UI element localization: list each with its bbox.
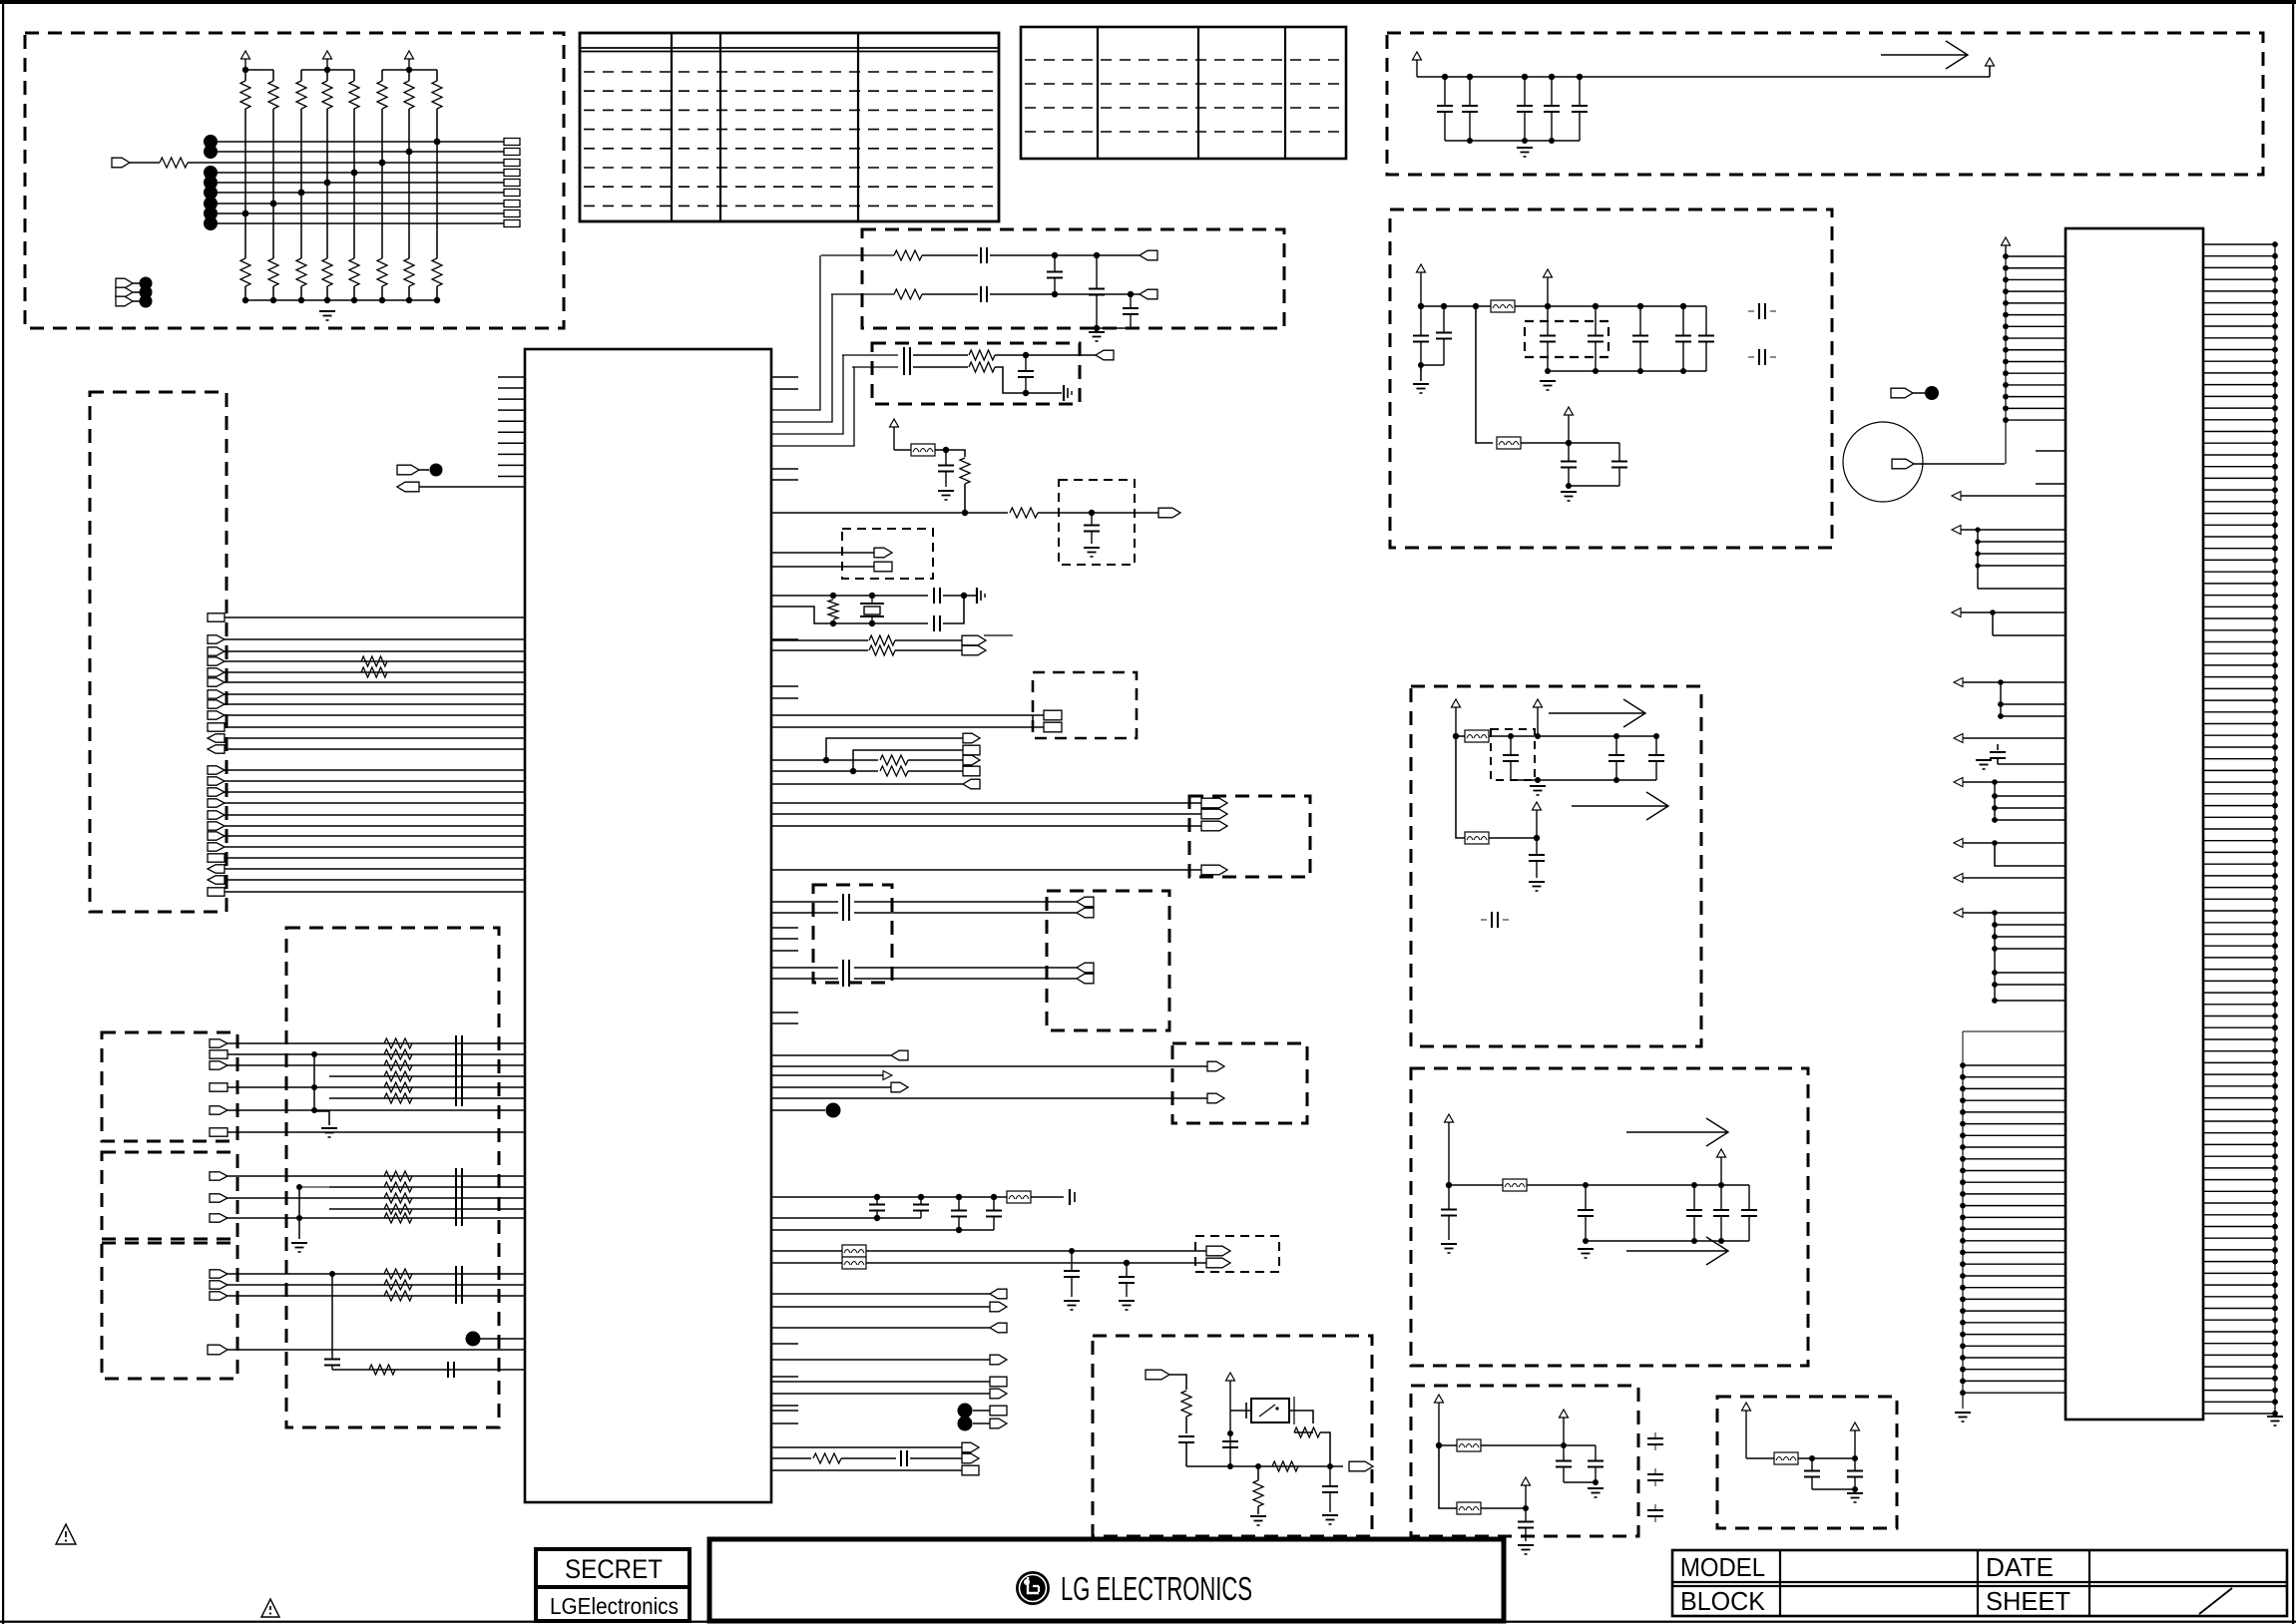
terminal <box>963 745 980 755</box>
rail junction <box>1467 138 1473 144</box>
junction <box>1418 362 1424 368</box>
load cap <box>934 588 940 604</box>
out terminal <box>1349 1461 1373 1471</box>
pull resistor R5 <box>349 81 359 109</box>
dc block cap <box>843 960 849 976</box>
bus wire <box>771 294 832 422</box>
stub <box>1654 1480 1656 1486</box>
io wire <box>228 1175 525 1177</box>
top link wire <box>1963 1030 2065 1032</box>
riser <box>331 1274 333 1355</box>
series resistor <box>384 1060 412 1070</box>
left rail wire <box>2005 256 2007 464</box>
vctrl terminal <box>1158 508 1180 518</box>
key row node <box>204 197 218 210</box>
junction <box>1227 1463 1233 1469</box>
rail to arrow wire <box>1989 66 1991 77</box>
rail junction <box>351 297 357 303</box>
wire to U1 <box>225 780 525 782</box>
resistor <box>1294 1427 1320 1437</box>
lower rail wire <box>1962 1065 1964 1409</box>
column wire lower <box>436 286 438 300</box>
key row node <box>204 145 218 159</box>
junction <box>1089 510 1095 516</box>
wire <box>964 595 977 597</box>
join wire <box>1812 1488 1855 1490</box>
junction <box>1566 440 1572 446</box>
stub <box>1654 1504 1656 1510</box>
cap <box>1540 306 1556 371</box>
decoupling capacitor <box>1572 77 1588 141</box>
terminal <box>1206 1246 1230 1256</box>
junction <box>869 620 875 626</box>
column wire lower <box>326 286 328 300</box>
key row terminal <box>504 201 520 207</box>
resistor <box>813 1453 841 1463</box>
key row terminal <box>504 160 520 167</box>
junction <box>1718 1238 1724 1244</box>
key row wire <box>188 162 504 164</box>
connector lower pin group <box>1960 1062 2066 1396</box>
cap <box>1561 443 1577 486</box>
cap <box>904 347 910 363</box>
terminal <box>1077 963 1094 973</box>
rail junction <box>324 297 330 303</box>
wire <box>894 449 911 451</box>
node <box>958 1404 973 1419</box>
RF supply block <box>1390 209 1832 548</box>
filter wire <box>332 1369 525 1371</box>
ground <box>1578 1249 1594 1258</box>
resistor <box>880 766 908 776</box>
node <box>826 1103 841 1118</box>
column wire upper <box>326 70 328 81</box>
wire <box>1185 1442 1187 1466</box>
vctrl wire <box>1038 512 1158 514</box>
join wire <box>1564 1481 1596 1483</box>
power arrow <box>1717 1149 1726 1185</box>
junction <box>1545 368 1551 374</box>
bottom rail <box>1511 779 1656 781</box>
bus wire <box>771 367 854 446</box>
key row terminal <box>504 210 520 217</box>
terminal <box>397 482 419 492</box>
power arrow <box>1565 407 1574 443</box>
cap <box>1441 1185 1457 1240</box>
ground <box>1250 1516 1266 1525</box>
rail junction <box>1680 303 1686 309</box>
ground <box>1084 548 1100 557</box>
lead <box>1257 1466 1259 1480</box>
bias resistor <box>828 600 838 619</box>
key row node <box>204 135 218 149</box>
rail junction <box>379 297 385 303</box>
tx wire <box>842 354 898 356</box>
pull resistor R16 <box>432 258 442 286</box>
key row node <box>204 176 218 190</box>
junction <box>830 593 836 599</box>
cap <box>1611 443 1627 486</box>
audio supply block <box>1411 686 1701 1046</box>
node <box>958 1417 973 1431</box>
sheet slash mark <box>2199 1588 2232 1614</box>
stub <box>1503 919 1509 921</box>
junction <box>1436 1442 1442 1448</box>
column wire lower <box>353 286 355 300</box>
mic wire <box>1914 463 2005 465</box>
junction <box>1852 1455 1858 1461</box>
series cap <box>456 1079 462 1095</box>
io wire <box>228 1109 525 1111</box>
tie junction <box>406 67 412 73</box>
series cap <box>456 1168 462 1184</box>
power arrow out <box>1986 58 1995 66</box>
junction <box>1691 1238 1697 1244</box>
rx wire <box>831 293 894 295</box>
junction <box>991 1194 997 1200</box>
stub <box>1654 1432 1656 1438</box>
pin wire <box>1961 495 2066 497</box>
cap <box>1578 1185 1594 1241</box>
page border frame right <box>2292 0 2294 1624</box>
io wire <box>771 1109 825 1111</box>
wire <box>908 759 963 761</box>
terminal <box>210 1061 228 1069</box>
resistor <box>1010 508 1038 518</box>
junction <box>1508 733 1514 739</box>
wire <box>1294 1431 1313 1433</box>
series resistor <box>384 1269 412 1279</box>
terminal <box>208 734 225 742</box>
led wire <box>771 1262 842 1264</box>
audio cap block <box>813 885 892 983</box>
ground <box>1588 1488 1604 1497</box>
logo title box frame <box>709 1539 1504 1621</box>
ground <box>1540 381 1556 390</box>
column wire <box>300 109 302 258</box>
series cap <box>456 1035 462 1051</box>
column wire <box>408 109 410 258</box>
junction <box>1653 733 1659 739</box>
terminal <box>1201 821 1227 831</box>
io wire <box>329 1208 525 1210</box>
ferrite <box>911 444 935 456</box>
load cap <box>934 615 940 631</box>
filter outline <box>1491 729 1535 780</box>
side ground <box>1064 385 1072 401</box>
output rail <box>1186 1465 1343 1467</box>
branch ferrite <box>1497 437 1521 449</box>
decoupling capacitor <box>1437 77 1453 141</box>
ground <box>1529 882 1545 891</box>
io wire <box>771 1359 990 1361</box>
connector pin wire <box>2036 483 2066 485</box>
rail junction <box>434 297 440 303</box>
memory io block <box>102 1032 237 1141</box>
sim io block <box>102 1152 237 1239</box>
series cap <box>456 1266 462 1282</box>
cap join <box>1569 485 1619 487</box>
io wire <box>228 1064 525 1066</box>
title table grid <box>1672 1550 2287 1616</box>
sd block <box>1172 1043 1307 1123</box>
terminal <box>208 745 225 753</box>
terminal <box>1201 809 1227 819</box>
terminal <box>208 647 225 655</box>
VBAT rail wire <box>1417 76 1990 78</box>
wire <box>771 1229 994 1231</box>
junction <box>918 1194 924 1200</box>
column wire upper <box>244 70 246 81</box>
key row wire <box>130 162 160 164</box>
audio wire <box>771 912 838 914</box>
node <box>466 1332 481 1347</box>
connector left pin group <box>2003 253 2066 423</box>
rx wire <box>922 254 978 256</box>
power VCC arrow x410 <box>405 51 414 70</box>
junction <box>1094 325 1100 331</box>
U1 left pin stubs <box>498 377 525 476</box>
junction <box>869 593 875 599</box>
wire <box>1031 1196 1064 1198</box>
ferrite <box>1457 1439 1481 1451</box>
series cap <box>456 1288 462 1304</box>
io wire <box>771 1065 1207 1067</box>
series cap <box>456 1190 462 1206</box>
U1 right pin stubs <box>771 377 798 1406</box>
power arrow <box>1560 1410 1569 1445</box>
power arrow <box>890 419 899 450</box>
wire <box>908 770 963 772</box>
GND bus wire <box>2274 244 2276 1414</box>
junction <box>1446 1182 1452 1188</box>
pull resistor R1 <box>240 81 250 109</box>
resistor <box>1181 1391 1191 1417</box>
if wire <box>771 714 1044 716</box>
filter outline <box>1059 480 1135 565</box>
cap <box>1047 255 1063 294</box>
LDO block <box>1411 1386 1638 1536</box>
junction <box>1535 777 1541 783</box>
wire <box>1481 1444 1596 1446</box>
key row node <box>204 186 218 200</box>
branch wire <box>1476 306 1493 443</box>
key row node <box>204 216 218 230</box>
bottom rail <box>245 299 437 301</box>
cap stub <box>1770 356 1776 358</box>
key row wire <box>211 151 504 153</box>
det terminal <box>1146 1370 1169 1380</box>
series resistor <box>384 1038 412 1048</box>
terminal <box>208 854 225 862</box>
key row wire <box>211 212 504 214</box>
test node <box>1925 386 1939 400</box>
wire <box>910 1457 962 1459</box>
series resistor <box>869 645 895 655</box>
dc block cap <box>843 905 849 921</box>
osc wire <box>943 596 964 623</box>
pin wire <box>1961 611 2066 613</box>
rail junction <box>1545 303 1551 309</box>
RX filter block <box>862 229 1284 328</box>
series resistor <box>384 1182 412 1192</box>
shield ground <box>291 1243 307 1252</box>
power arrow <box>1533 802 1542 838</box>
uart wire <box>771 802 1201 804</box>
series cap <box>456 1179 462 1195</box>
cap <box>1222 1441 1238 1447</box>
wire to U1 <box>225 616 525 618</box>
spare key terminal <box>116 278 133 288</box>
filter cap <box>1990 752 2006 758</box>
terminal <box>208 723 225 731</box>
matrix junction <box>298 190 305 197</box>
decoupling capacitor <box>1517 77 1533 141</box>
rx wire <box>990 254 1140 256</box>
in arrow <box>1952 609 1961 617</box>
if wire <box>771 726 1044 728</box>
top tie wire <box>301 69 354 71</box>
matrix junction <box>242 210 249 217</box>
cap <box>1588 1445 1604 1482</box>
junction <box>1680 368 1686 374</box>
in arrow <box>1952 526 1961 535</box>
pin wire <box>1963 877 2066 879</box>
series resistor <box>384 1049 412 1059</box>
led wire <box>771 1250 842 1252</box>
drop wire <box>1992 612 1994 635</box>
pin wire <box>1998 763 2066 765</box>
cap bottom rail <box>1445 140 1580 142</box>
wire to U1 <box>225 748 525 750</box>
cap <box>448 1362 454 1378</box>
led wire <box>866 1262 1206 1264</box>
osc wire <box>771 607 928 623</box>
cap <box>1178 1436 1194 1442</box>
cap <box>1698 306 1714 371</box>
junction <box>1852 1486 1858 1492</box>
top tie wire <box>245 69 273 71</box>
io wire <box>771 1054 891 1056</box>
terminal <box>210 1128 228 1136</box>
cap ground <box>1976 760 1992 769</box>
shield ground <box>321 1128 337 1137</box>
junction <box>1128 291 1134 297</box>
TP terminal <box>397 465 419 475</box>
ground <box>1530 786 1546 795</box>
io wire <box>228 1131 525 1133</box>
supply ferrite <box>1491 300 1515 312</box>
line filter block <box>286 928 499 1427</box>
terminal <box>990 1389 1007 1399</box>
junction <box>311 1051 317 1057</box>
warning triangle <box>261 1599 279 1617</box>
supply arrow <box>1572 792 1668 820</box>
bus ground <box>2267 1417 2283 1425</box>
side cap <box>1070 1189 1075 1205</box>
junction <box>1227 1430 1233 1436</box>
page border frame bottom <box>0 1621 2296 1623</box>
page border frame top <box>0 0 2296 4</box>
junction <box>1583 1182 1589 1188</box>
ground <box>1561 492 1577 501</box>
node <box>430 464 443 477</box>
power arrow <box>1445 1114 1454 1185</box>
column wire <box>326 109 328 258</box>
spare cap <box>1647 1474 1663 1480</box>
audio wire <box>771 978 838 980</box>
wire <box>1489 837 1537 839</box>
wire <box>964 484 966 513</box>
ground <box>1441 1244 1457 1253</box>
ferrite <box>1457 1502 1481 1514</box>
svg-text:MODEL: MODEL <box>1680 1552 1765 1582</box>
resistor <box>969 362 995 372</box>
junction <box>1583 1238 1589 1244</box>
column wire upper <box>408 70 410 81</box>
column wire <box>272 109 274 258</box>
series cap <box>981 286 987 302</box>
power arrow <box>1452 699 1461 736</box>
junction <box>874 1194 880 1200</box>
rail wire <box>1527 1184 1749 1186</box>
series resistor <box>384 1280 412 1290</box>
column wire upper <box>353 70 355 81</box>
TX filter block <box>872 343 1080 404</box>
terminal <box>210 1172 228 1180</box>
io wire <box>771 1381 990 1383</box>
io wire <box>771 783 963 785</box>
column wire upper <box>272 70 274 81</box>
charge arrow <box>1626 1118 1728 1146</box>
svg-text:SHEET: SHEET <box>1986 1586 2070 1616</box>
switch wire <box>1230 1410 1251 1412</box>
series resistor <box>384 1071 412 1081</box>
wire <box>1456 735 1465 737</box>
cap <box>951 1197 967 1230</box>
cap join wire <box>1421 364 1444 366</box>
terminal <box>210 1214 228 1222</box>
rail junction <box>1549 138 1555 144</box>
wire to U1 <box>225 660 525 662</box>
io wire <box>771 1074 883 1076</box>
audio wire <box>854 901 1077 903</box>
page border frame left <box>2 0 4 1624</box>
terminal <box>963 755 980 765</box>
cap lead <box>1997 758 1999 764</box>
io wire <box>228 1042 525 1044</box>
series cap <box>981 247 987 263</box>
crystal X1 <box>860 596 884 623</box>
matrix junction <box>406 149 413 156</box>
uart wire <box>771 813 1201 815</box>
side ground <box>977 588 985 604</box>
connector CN1 body <box>2066 228 2203 1420</box>
tx wire <box>995 354 1096 356</box>
power arrow <box>1435 1395 1444 1445</box>
audio io block <box>102 1243 237 1379</box>
jack switch box <box>1246 1397 1294 1424</box>
series cap <box>456 1277 462 1293</box>
terminal <box>208 678 225 686</box>
terminal <box>891 1050 908 1060</box>
tx wire <box>913 366 968 368</box>
key row wire <box>211 192 504 194</box>
ground <box>1119 1301 1135 1310</box>
charger block <box>1411 1068 1808 1366</box>
pull resistor R7 <box>404 81 414 109</box>
junction <box>943 447 949 453</box>
